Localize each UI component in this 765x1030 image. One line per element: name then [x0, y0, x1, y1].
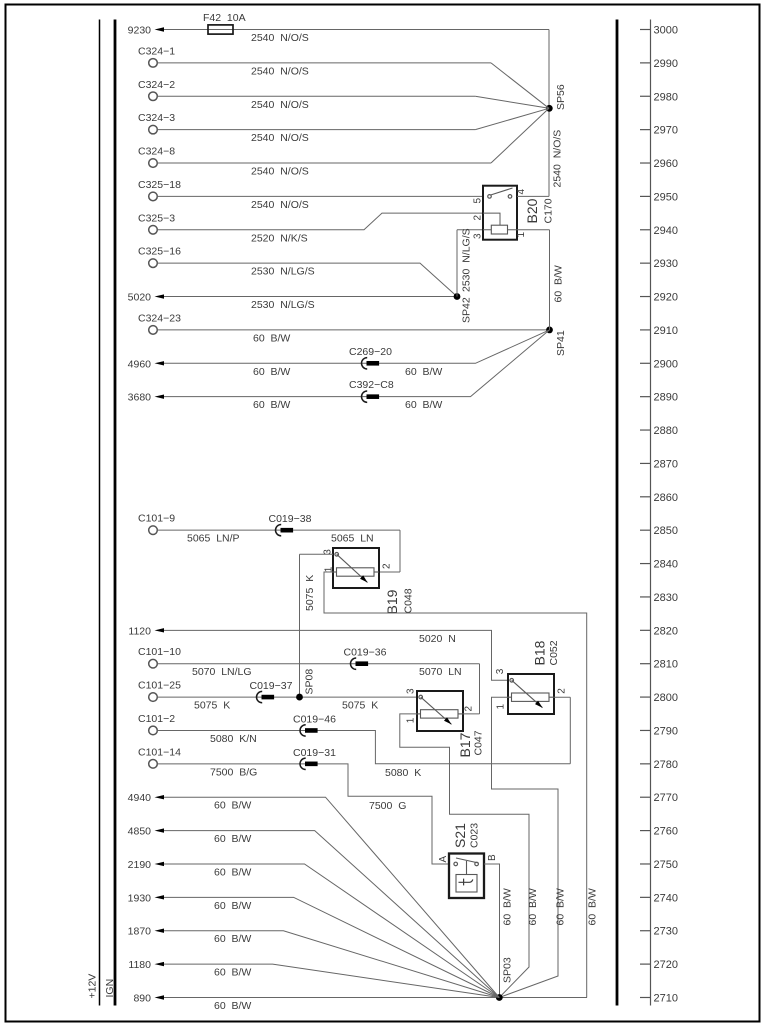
svg-text:5080 K: 5080 K [385, 767, 421, 779]
svg-text:2540 N/O/S: 2540 N/O/S [251, 132, 309, 144]
svg-text:C101−14: C101−14 [138, 746, 181, 758]
svg-text:2940: 2940 [654, 225, 678, 237]
svg-text:60 B/W: 60 B/W [253, 332, 290, 344]
svg-text:890: 890 [133, 992, 151, 1004]
svg-text:SP41: SP41 [555, 330, 567, 356]
svg-text:4: 4 [516, 189, 527, 195]
svg-text:2790: 2790 [654, 725, 678, 737]
svg-text:C019−46: C019−46 [293, 713, 336, 725]
svg-text:B: B [487, 854, 498, 861]
svg-text:60 B/W: 60 B/W [253, 366, 290, 378]
svg-text:2930: 2930 [654, 258, 678, 270]
svg-text:1870: 1870 [128, 926, 152, 938]
svg-text:2540 N/O/S: 2540 N/O/S [552, 130, 564, 188]
svg-text:SP03: SP03 [502, 957, 514, 983]
svg-text:2: 2 [464, 706, 475, 712]
svg-text:60 B/W: 60 B/W [502, 888, 514, 925]
svg-text:C047: C047 [473, 730, 485, 755]
svg-text:2: 2 [557, 688, 568, 694]
svg-text:C324−23: C324−23 [138, 312, 181, 324]
svg-text:C101−2: C101−2 [138, 713, 175, 725]
svg-text:2530 N/LG/S: 2530 N/LG/S [251, 266, 315, 278]
svg-text:5070 LN: 5070 LN [419, 666, 462, 678]
svg-text:2840: 2840 [654, 559, 678, 571]
svg-text:2870: 2870 [654, 458, 678, 470]
svg-text:2530 N/LG/S: 2530 N/LG/S [251, 299, 315, 311]
svg-text:60 B/W: 60 B/W [253, 399, 290, 411]
svg-text:60 B/W: 60 B/W [214, 866, 251, 878]
svg-text:SP56: SP56 [555, 84, 567, 110]
svg-text:5065 LN: 5065 LN [331, 533, 374, 545]
svg-text:2980: 2980 [654, 91, 678, 103]
svg-text:B18: B18 [532, 640, 548, 665]
svg-text:2540 N/O/S: 2540 N/O/S [251, 199, 309, 211]
svg-text:3000: 3000 [654, 25, 678, 37]
svg-text:2810: 2810 [654, 659, 678, 671]
svg-text:1: 1 [516, 232, 527, 238]
svg-text:+12V: +12V [87, 974, 99, 999]
svg-text:S21: S21 [452, 823, 468, 848]
svg-text:C269−20: C269−20 [349, 346, 392, 358]
svg-text:60 B/W: 60 B/W [214, 800, 251, 812]
svg-text:2540 N/O/S: 2540 N/O/S [251, 65, 309, 77]
svg-text:C019−31: C019−31 [293, 747, 336, 759]
svg-text:2920: 2920 [654, 292, 678, 304]
svg-text:2760: 2760 [654, 826, 678, 838]
svg-text:2860: 2860 [654, 492, 678, 504]
svg-text:1: 1 [324, 566, 335, 572]
svg-text:2800: 2800 [654, 692, 678, 704]
svg-text:60 B/W: 60 B/W [214, 933, 251, 945]
svg-text:C392−C8: C392−C8 [349, 379, 394, 391]
svg-text:C101−25: C101−25 [138, 680, 181, 692]
svg-text:60 B/W: 60 B/W [587, 888, 599, 925]
svg-text:60 B/W: 60 B/W [214, 900, 251, 912]
svg-text:C101−10: C101−10 [138, 646, 181, 658]
svg-text:2990: 2990 [654, 58, 678, 70]
svg-text:3: 3 [473, 233, 484, 239]
svg-text:C023: C023 [469, 823, 481, 848]
svg-text:2830: 2830 [654, 592, 678, 604]
svg-text:C324−2: C324−2 [138, 79, 175, 91]
svg-text:B20: B20 [524, 198, 540, 223]
svg-text:4960: 4960 [128, 358, 152, 370]
svg-text:2540 N/O/S: 2540 N/O/S [251, 99, 309, 111]
svg-text:2970: 2970 [654, 125, 678, 137]
svg-text:C324−8: C324−8 [138, 146, 175, 158]
svg-text:60 B/W: 60 B/W [405, 399, 442, 411]
svg-text:3680: 3680 [128, 392, 152, 404]
svg-text:C325−3: C325−3 [138, 212, 175, 224]
svg-text:2720: 2720 [654, 959, 678, 971]
svg-text:4940: 4940 [128, 792, 152, 804]
svg-text:2890: 2890 [654, 392, 678, 404]
svg-text:1: 1 [496, 704, 507, 710]
svg-text:C052: C052 [548, 640, 560, 665]
svg-text:2950: 2950 [654, 191, 678, 203]
svg-text:2710: 2710 [654, 992, 678, 1004]
svg-text:1: 1 [406, 717, 417, 723]
svg-text:C324−1: C324−1 [138, 45, 175, 57]
svg-text:2900: 2900 [654, 358, 678, 370]
svg-text:60 B/W: 60 B/W [555, 888, 567, 925]
svg-text:C101−9: C101−9 [138, 513, 175, 525]
svg-text:C048: C048 [403, 588, 415, 613]
svg-text:7500 G: 7500 G [369, 800, 406, 812]
svg-text:60 B/W: 60 B/W [214, 833, 251, 845]
svg-text:2910: 2910 [654, 325, 678, 337]
svg-text:2190: 2190 [128, 859, 152, 871]
svg-text:A: A [438, 856, 449, 863]
svg-text:60 B/W: 60 B/W [405, 366, 442, 378]
svg-text:2: 2 [382, 563, 393, 569]
svg-text:C325−18: C325−18 [138, 179, 181, 191]
svg-text:IGN: IGN [104, 979, 116, 998]
svg-text:5: 5 [473, 198, 484, 204]
svg-text:5020 N: 5020 N [419, 633, 456, 645]
svg-text:60 B/W: 60 B/W [527, 888, 539, 925]
svg-text:5075 K: 5075 K [342, 700, 378, 712]
svg-text:3: 3 [495, 668, 506, 674]
svg-text:5075 K: 5075 K [194, 700, 230, 712]
svg-text:B19: B19 [384, 589, 400, 614]
svg-text:B17: B17 [457, 732, 473, 757]
svg-text:2820: 2820 [654, 625, 678, 637]
svg-text:2520 N/K/S: 2520 N/K/S [251, 232, 308, 244]
svg-text:C170: C170 [543, 198, 555, 223]
svg-text:7500 B/G: 7500 B/G [210, 766, 257, 778]
svg-text:5070 LN/LG: 5070 LN/LG [192, 666, 252, 678]
svg-text:2540 N/O/S: 2540 N/O/S [251, 32, 309, 44]
svg-text:1930: 1930 [128, 892, 152, 904]
svg-text:1120: 1120 [128, 625, 151, 637]
svg-text:2850: 2850 [654, 525, 678, 537]
svg-text:4850: 4850 [128, 826, 152, 838]
svg-text:9230: 9230 [128, 25, 152, 37]
svg-text:5065 LN/P: 5065 LN/P [187, 533, 240, 545]
svg-text:60 B/W: 60 B/W [553, 265, 565, 302]
svg-text:2: 2 [473, 215, 484, 221]
svg-text:2960: 2960 [654, 158, 678, 170]
svg-text:5080 K/N: 5080 K/N [210, 733, 257, 745]
svg-text:2780: 2780 [654, 759, 678, 771]
svg-text:C019−36: C019−36 [344, 647, 387, 659]
svg-text:2530 N/LG/S: 2530 N/LG/S [461, 228, 473, 292]
svg-text:5075 K: 5075 K [304, 575, 316, 611]
svg-text:C019−38: C019−38 [269, 513, 312, 525]
svg-text:F42 10A: F42 10A [203, 12, 246, 24]
svg-text:C019−37: C019−37 [250, 680, 293, 692]
svg-text:3: 3 [406, 688, 417, 694]
svg-text:C325−16: C325−16 [138, 246, 181, 258]
svg-text:2740: 2740 [654, 892, 678, 904]
svg-text:1180: 1180 [128, 959, 151, 971]
svg-text:SP42: SP42 [461, 297, 473, 323]
svg-text:60 B/W: 60 B/W [214, 1000, 251, 1012]
svg-text:5020: 5020 [128, 292, 152, 304]
svg-text:2770: 2770 [654, 792, 678, 804]
svg-text:2880: 2880 [654, 425, 678, 437]
svg-text:SP08: SP08 [304, 669, 316, 695]
svg-text:2540 N/O/S: 2540 N/O/S [251, 166, 309, 178]
svg-text:2730: 2730 [654, 926, 678, 938]
svg-text:60 B/W: 60 B/W [214, 967, 251, 979]
svg-text:2750: 2750 [654, 859, 678, 871]
svg-text:C324−3: C324−3 [138, 112, 175, 124]
